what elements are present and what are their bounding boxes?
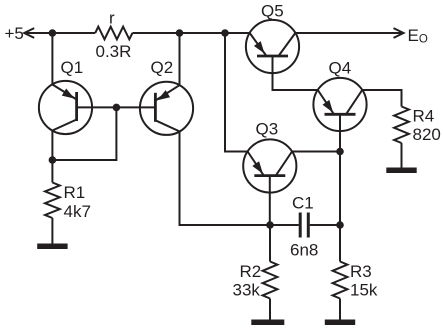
- wire: R1 bottom to ground: [51, 218, 53, 245]
- svg-text:EO: EO: [408, 26, 428, 46]
- +5 input arrowhead: [24, 28, 34, 38]
- svg-text:R3: R3: [350, 262, 372, 281]
- node: rail / Q3 branch: [221, 29, 229, 37]
- svg-text:C1: C1: [292, 194, 314, 213]
- resistor R3 zigzag: [333, 262, 348, 299]
- svg-text:R1: R1: [64, 183, 86, 202]
- ground (R3): [325, 320, 355, 326]
- node: Q3 collector / Q4 base: [336, 148, 344, 156]
- wire: node A to C1 left plate: [270, 224, 299, 226]
- node A: Q2 collector / Q3 base / C1 / R2: [266, 221, 274, 229]
- svg-text:R2: R2: [240, 262, 262, 281]
- resistor r zigzag: [95, 27, 132, 40]
- resistor R1 zigzag: [45, 183, 60, 219]
- svg-text:15k: 15k: [350, 281, 378, 300]
- wire: +5 rail left segment: [25, 32, 96, 34]
- ground (R2): [251, 320, 284, 326]
- wire: rail from Q5 to output: [295, 32, 402, 34]
- svg-text:0.3R: 0.3R: [96, 42, 132, 61]
- capacitor C1 left plate: [299, 213, 302, 238]
- wire: node A down to R2: [269, 225, 271, 262]
- wire: Q2 collector down and right to node A: [180, 131, 271, 225]
- svg-text:Q2: Q2: [151, 58, 174, 77]
- wire: R4 bottom to ground: [401, 143, 403, 169]
- transistor Q5: [246, 20, 299, 73]
- node: rail / Q2 emitter: [176, 29, 184, 37]
- wire: R2 bottom to ground: [269, 299, 271, 321]
- svg-text:820: 820: [413, 125, 441, 144]
- wire: rail down to Q3 emitter: [225, 33, 248, 152]
- wire: C1 right plate to node B: [310, 224, 340, 226]
- wire: R3 bottom to ground: [339, 299, 341, 321]
- node B: C1 / Q4 base line / R3: [336, 221, 344, 229]
- wire: feedback from base node down and left to collector node: [52, 107, 116, 160]
- output arrowhead Eo: [394, 28, 404, 38]
- svg-text:Q3: Q3: [256, 120, 279, 139]
- svg-text:33k: 33k: [233, 281, 261, 300]
- wire: Q4 base node down to node B: [339, 152, 341, 226]
- ground (R4): [386, 168, 416, 174]
- wire: Q4 collector right and down to R4: [362, 90, 401, 107]
- resistor R4 zigzag: [394, 107, 409, 144]
- wire: Q1 collector down to R1 node: [51, 131, 53, 183]
- capacitor C1 right plate: [307, 213, 310, 238]
- transistor Q4: [313, 78, 366, 152]
- node: Q1 collector / R1 / feedback: [49, 156, 57, 164]
- wire: left branch rail to Q1 emitter: [51, 33, 53, 85]
- resistor R2 zigzag: [263, 262, 278, 299]
- svg-text:Q4: Q4: [329, 58, 352, 77]
- wire: Q5 base down and right to Q4 emitter: [273, 56, 318, 90]
- svg-text:+5: +5: [5, 24, 24, 43]
- wire: node B down to R3: [339, 225, 341, 262]
- wire: +5 rail middle segment: [132, 32, 249, 34]
- transistor Q3: [243, 139, 296, 225]
- wire: Q3 collector to Q4 base node: [292, 151, 340, 153]
- wire: rail to Q2 emitter vertical: [179, 33, 181, 85]
- ground (R1): [37, 244, 67, 250]
- svg-text:r: r: [109, 9, 115, 28]
- node: rail / Q1 branch: [49, 29, 57, 37]
- svg-text:4k7: 4k7: [64, 202, 91, 221]
- svg-text:Q5: Q5: [261, 1, 284, 20]
- svg-text:Q1: Q1: [61, 58, 84, 77]
- node: Q1-Q2 base junction: [113, 104, 121, 112]
- transistor Q2: [116, 82, 193, 135]
- svg-text:6n8: 6n8: [290, 241, 318, 260]
- svg-text:R4: R4: [413, 107, 435, 126]
- transistor Q1: [39, 81, 117, 134]
